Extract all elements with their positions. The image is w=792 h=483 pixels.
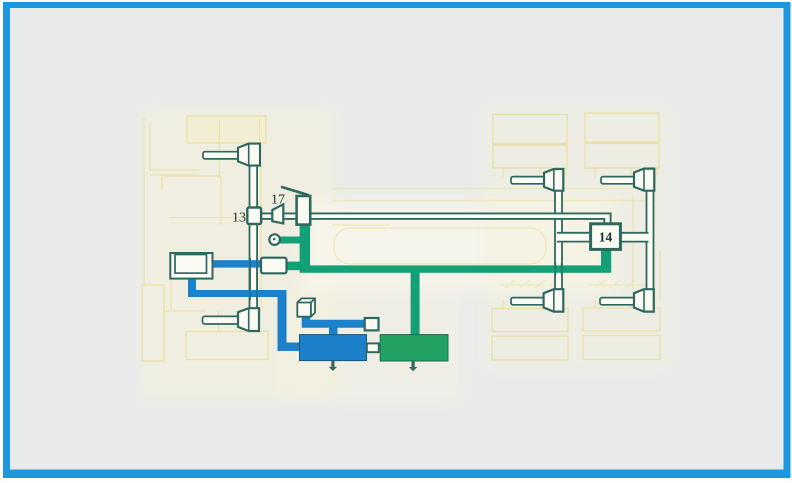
ghost leg through rod (219, 120, 221, 178)
brake chamber rear-top-left (511, 169, 563, 191)
wire H1 long thin pipe valve to rear, with elbow down to box 14 (261, 213, 612, 225)
ghost verticals below lower chambers (503, 300, 631, 308)
ghost rect top-right B1 (585, 113, 659, 142)
ghost leg upper right1 (503, 168, 566, 178)
drain below compressor (329, 361, 337, 371)
ghost rect bottom-right C1 (492, 309, 568, 332)
ghost rect top-right A1 (493, 115, 567, 144)
ghost rect bottom-right D2 (583, 336, 660, 360)
governor 3D box (297, 298, 315, 316)
ghost rect bottom-right D1 (583, 308, 660, 331)
valve 17 trapezoid (272, 204, 283, 223)
wire blue pipe B (box down, right, down to compressor) (188, 278, 300, 351)
air tank (green box) (380, 335, 448, 361)
small square valve on compressor (365, 318, 379, 330)
ghost vertical far right (659, 250, 661, 300)
compressor (blue box) (300, 335, 367, 361)
hand brake valve (tall) (297, 196, 311, 225)
box 14 (591, 224, 621, 250)
ghost rect top-right B2 (585, 144, 659, 169)
transfer valve (white) (261, 258, 287, 274)
ghost chassis rails (332, 189, 656, 226)
wire green elbow up to box 14 (601, 249, 611, 268)
ghost vertical along V1 (260, 165, 262, 310)
wire H2 box14 left pipe (557, 233, 591, 242)
svg-text:17: 17 (271, 193, 285, 208)
cream wash mid pipe zone (302, 200, 614, 292)
wire green stub from valve to junction (284, 262, 306, 271)
wire H3 box14 right pipe (620, 233, 649, 242)
wire V1 front vertical upper (chamber to valve13) (250, 162, 258, 209)
wire V3 rear-right vertical (647, 190, 654, 289)
ghost rect top-right A2 (493, 145, 567, 168)
cream wash right (482, 104, 672, 370)
handbrake chamber front-bottom (203, 308, 260, 331)
ghost big tank middle (334, 228, 546, 264)
ghost vertical left band2 (164, 255, 219, 332)
cream wash front zone (140, 108, 336, 400)
ghost hatch marks near rear chambers (500, 280, 650, 288)
connector square between boxes (367, 343, 379, 352)
wire V2 edges over green (556, 263, 562, 275)
ghost line under main (221, 118, 260, 225)
crossing marks: V1/V2 edges over colour pipes (250, 258, 561, 300)
valve 13 (247, 208, 261, 225)
ghost block top-left outline (187, 116, 266, 143)
wire V2 rear-left vertical (555, 190, 562, 289)
wire green gauge stub (279, 237, 301, 244)
wire blue pipe A (display box to transfer valve) (210, 260, 263, 267)
ghost rect bottom-right C2 (492, 336, 568, 360)
wire green vertical from hand valve (300, 223, 310, 271)
brake chamber front-top (203, 144, 260, 166)
ghost tall rect far-left (142, 285, 164, 361)
ghost line left horizontal (162, 176, 221, 190)
ghost horizontal near valve13 (170, 217, 246, 219)
wire green branch to tank (411, 270, 420, 335)
ghost line top-left step (144, 118, 199, 285)
ghost leg upper right2 (595, 168, 657, 178)
wire blue governor pipe (302, 316, 365, 335)
drain below tank (409, 361, 417, 371)
brake chamber rear-top-right (601, 169, 654, 191)
svg-text:13: 13 (232, 211, 246, 226)
brake chamber rear-bottom-right (600, 289, 654, 311)
brake chamber rear-bottom-left (511, 289, 563, 311)
wire V1 front vertical lower (valve13 to handbrake chamber) (250, 222, 258, 309)
gauge (269, 234, 280, 245)
display box (reservoir) (170, 253, 212, 279)
ghost rect bottom-left (186, 332, 268, 360)
svg-text:14: 14 (599, 230, 613, 245)
wire green main line (300, 265, 612, 272)
wire V1 edges over blue (250, 258, 257, 300)
lever of hand valve (281, 187, 309, 196)
cream wash bottom mid (276, 288, 462, 400)
ghost vertical right of 14 (632, 196, 634, 288)
